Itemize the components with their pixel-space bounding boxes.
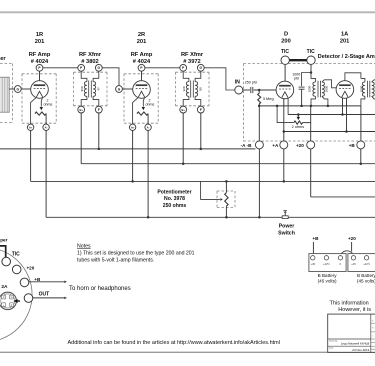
- svg-text:D: D: [284, 32, 288, 38]
- label D 200 tube designation: [281, 32, 291, 45]
- wire grid return down to -A -B terminal: [258, 106, 260, 141]
- label RF Amp # 4024 (2R): [131, 52, 153, 65]
- resistor R1 3 Meg grid leak: [258, 90, 261, 106]
- svg-text:# 3802: # 3802: [81, 59, 98, 65]
- wire plate 1A to T4 primary: [345, 73, 361, 81]
- wire F T2 down to F bus: [200, 113, 202, 149]
- svg-text:3 Meg: 3 Meg: [263, 96, 274, 101]
- wire capacitor to grid node: [254, 89, 277, 91]
- wire +20 feed vertical: [310, 106, 312, 141]
- dashed box RF Xfmr T2: [175, 72, 209, 106]
- label jumper (cut off): [0, 238, 7, 243]
- wire filament to A+ (1R): [31, 97, 37, 124]
- terminal F (T2): [197, 106, 204, 113]
- label +20 battery lead: [348, 236, 356, 241]
- label 2A socket: [1, 284, 8, 290]
- terminal B+ (T2): [180, 106, 187, 113]
- wire 2-ohm rheostat left end to L1: [277, 106, 294, 123]
- label 3 Meg: [263, 96, 274, 101]
- label RF Xfmr # 3972: [181, 52, 204, 65]
- title block date: [329, 347, 369, 352]
- svg-text:2R: 2R: [138, 32, 145, 38]
- winding value label 80 (T2): [199, 87, 203, 91]
- label B Battery (45 volts) left: [318, 273, 338, 284]
- terminal P (T2): [180, 64, 187, 71]
- winding value label 960 (T1): [80, 86, 84, 91]
- svg-text:250 ohms: 250 ohms: [163, 203, 187, 209]
- wire P to plate (2R): [141, 71, 143, 81]
- wire 1A left filament leg: [342, 98, 344, 115]
- svg-text:+B: +B: [312, 236, 319, 241]
- svg-text:320: 320: [182, 86, 186, 91]
- svg-text:+22½: +22½: [323, 262, 330, 266]
- plate-return bus L1: [259, 105, 361, 107]
- terminal G (T1): [95, 64, 102, 71]
- svg-text:(45 volts): (45 volts): [357, 279, 375, 284]
- AF transformer T4 secondary winding (cut off): [372, 80, 375, 99]
- wire +B hole to horn: [29, 281, 67, 284]
- terminal B+ (T1): [78, 106, 85, 113]
- jumper bar between TIC terminals: [290, 59, 307, 61]
- rheostat R2 2 ohms (detector): [294, 121, 311, 124]
- wire +B terminal down to B+ bus: [360, 149, 362, 164]
- AF transformer T3 core: [318, 81, 320, 98]
- terminal A+ (2R): [129, 124, 135, 130]
- svg-text:However, it is: However, it is: [338, 307, 371, 313]
- svg-text:RF Xfmr: RF Xfmr: [181, 52, 204, 58]
- wire plate 1R to P T1: [43, 67, 78, 69]
- wire F T1 down to F bus: [98, 113, 100, 149]
- label 2 ohms (1R): [44, 98, 53, 106]
- wire G T1 to grid 2R: [102, 68, 119, 86]
- terminal TIC 1: [281, 56, 289, 64]
- junction +A node on L4: [283, 130, 286, 133]
- label 1000 pfd: [292, 73, 300, 81]
- label TIC left: [281, 49, 289, 55]
- junction +B on B+ bus: [360, 162, 363, 165]
- wire G T2 to IN terminal: [204, 68, 235, 90]
- triode tube D (detector, type 200): [276, 81, 294, 99]
- wire coupler to terminal G: [9, 88, 14, 90]
- wire +B terminal up to T4: [360, 106, 362, 141]
- tube socket 2A: [0, 292, 16, 309]
- svg-text:+22½: +22½: [363, 262, 370, 266]
- label 2 ohms (2R): [146, 98, 155, 106]
- svg-text:A+: A+: [131, 126, 135, 130]
- svg-text:ohms: ohms: [44, 102, 53, 106]
- svg-text:per: per: [0, 238, 7, 243]
- label Potentiometer No. 3978 250 ohms: [157, 189, 191, 209]
- label To horn or headphones: [69, 286, 131, 292]
- wire tube D right filament leg to filament bus: [287, 98, 289, 115]
- svg-text:1000: 1000: [308, 85, 312, 92]
- terminal G (grid input stage 1R): [14, 86, 21, 93]
- svg-text:Power: Power: [279, 223, 295, 229]
- junction A+ 2R on A+ bus: [131, 180, 134, 183]
- B+ bus: [81, 163, 375, 165]
- battery B1 terminal +22&#189;: [323, 256, 330, 266]
- wire P to plate (1R): [39, 71, 41, 81]
- svg-text:F: F: [200, 108, 202, 112]
- winding value label 47 (T1): [97, 87, 101, 91]
- jumper battery 1 to battery 2: [341, 251, 354, 255]
- jumper wire to TIC hole: [0, 246, 6, 257]
- junction +A on A+ bus: [283, 180, 286, 183]
- note however text: [338, 307, 371, 313]
- svg-text:TIC: TIC: [307, 49, 315, 55]
- label 1R tube designation: [35, 32, 45, 45]
- rheostat 2 ohms (2R): [137, 97, 148, 124]
- svg-text:RF Amp: RF Amp: [29, 52, 51, 58]
- winding value label 320 (T2): [182, 86, 186, 91]
- AF transformer T4 core: [367, 81, 369, 98]
- note this information text: [330, 301, 369, 307]
- title block row dividers: [328, 323, 375, 349]
- wire plate 2R to P T2: [145, 67, 180, 69]
- svg-text:+B: +B: [349, 143, 356, 148]
- svg-text:+A: +A: [272, 143, 279, 148]
- A+ bus: [31, 180, 375, 182]
- node grid leak bottom junction: [258, 105, 261, 108]
- terminal A+ (1R): [27, 124, 33, 130]
- terminal +20: [307, 141, 315, 149]
- svg-text:+20: +20: [27, 266, 35, 271]
- svg-text:23 Nov 2013: 23 Nov 2013: [352, 348, 369, 352]
- svg-text:201: 201: [137, 39, 147, 45]
- panel hole +20: [12, 265, 21, 274]
- dashed box potentiometer: [217, 191, 235, 208]
- wire terminal G to tube 2R grid: [122, 88, 132, 90]
- antenna coupler coil L0: [0, 77, 9, 112]
- svg-text:ohms: ohms: [146, 102, 155, 106]
- label TIC right: [307, 49, 315, 55]
- svg-text:960: 960: [80, 86, 84, 91]
- wire TIC 2 down to transformer primary: [310, 64, 312, 72]
- svg-text:201: 201: [340, 39, 350, 45]
- terminal P (T1): [78, 64, 85, 71]
- wire pot top to A+ bus: [225, 181, 227, 192]
- dashed box RF Xfmr T1: [73, 72, 107, 106]
- svg-text:No. 3978: No. 3978: [164, 196, 185, 202]
- label 2R tube designation: [137, 32, 147, 45]
- title block drawn by: [329, 340, 369, 346]
- terminal +A: [280, 141, 288, 149]
- A- bus (through power switch): [46, 216, 375, 218]
- wire terminal G to tube 1R grid: [21, 88, 31, 90]
- wire A- 2R down to A- bus: [147, 131, 149, 218]
- junction F T1 on F bus: [98, 148, 101, 151]
- svg-text:47: 47: [97, 87, 101, 91]
- svg-text:(45 volts): (45 volts): [318, 279, 337, 284]
- node TIC branch junction: [310, 71, 313, 74]
- label +B battery lead: [312, 236, 319, 241]
- wire plate D up to TIC terminal: [284, 64, 286, 81]
- svg-text:Potentiometer: Potentiometer: [157, 189, 191, 195]
- svg-text:F: F: [98, 108, 100, 112]
- svg-text:-A -B: -A -B: [241, 143, 252, 148]
- triode tube 1R (type 201): [31, 81, 49, 99]
- node grid junction: [258, 89, 261, 92]
- junction A- 2R on A- bus: [147, 216, 150, 219]
- triode tube 2R (type 201): [133, 81, 151, 99]
- svg-text:2 ohms: 2 ohms: [292, 125, 305, 129]
- svg-text:er: er: [0, 56, 6, 62]
- svg-text:A-: A-: [147, 126, 150, 130]
- title block right column marks: [372, 321, 374, 338]
- junction 1A left leg on filament bus: [341, 113, 344, 116]
- battery B1 case: [309, 254, 346, 272]
- wire tube D left filament leg to +A node: [283, 98, 285, 140]
- panel hole TIC: [2, 257, 11, 266]
- svg-text:B Battery: B Battery: [357, 273, 375, 278]
- svg-text:# 3972: # 3972: [183, 59, 200, 65]
- terminal G (grid stage 2R): [116, 86, 123, 93]
- junction 1A right leg on L4: [345, 130, 348, 133]
- panel hole OUT: [24, 294, 33, 303]
- label +20 (panel): [27, 266, 35, 271]
- svg-text:Switch: Switch: [278, 230, 295, 236]
- AF transformer T4 primary winding (cut off): [361, 78, 365, 106]
- svg-text:1A: 1A: [341, 32, 348, 38]
- svg-text:tubes with 5-volt 1-amp filame: tubes with 5-volt 1-amp filaments.: [77, 257, 154, 263]
- label TIC (panel): [12, 252, 20, 258]
- wire filament to A+ (2R): [133, 97, 139, 124]
- junction B+ T2 on B+ bus: [182, 162, 185, 165]
- capacitor C2 1000 pfd: [299, 87, 305, 89]
- junction T3 secondary on plate-return bus: [327, 105, 330, 108]
- rheostat 2 ohms (1R): [35, 97, 46, 124]
- transformer T1 primary winding: [81, 71, 87, 106]
- wire B+ T1 down to B+ bus: [80, 113, 82, 164]
- svg-text:B Battery: B Battery: [318, 273, 338, 278]
- svg-text:B+: B+: [79, 108, 83, 112]
- wire +B lead to battery 1: [312, 242, 314, 255]
- terminal A- (2R): [145, 124, 151, 130]
- notes line 1: [77, 251, 195, 257]
- label 250 pfd: [245, 80, 257, 84]
- svg-text:C: C: [3, 296, 5, 299]
- antenna coupler dashed box (cut off): [0, 64, 12, 123]
- svg-text:250 pfd: 250 pfd: [245, 80, 257, 84]
- svg-text:S: S: [372, 321, 373, 323]
- wire branch to bypass capacitor: [302, 73, 311, 87]
- wire +20 lead to battery 2: [351, 242, 353, 251]
- svg-text:pfd: pfd: [294, 77, 299, 81]
- svg-text:To horn or headphones: To horn or headphones: [69, 286, 131, 292]
- wire OUT hole to horn: [33, 297, 67, 300]
- battery B1 terminal 0: [338, 256, 342, 266]
- wire B+ T2 down to B+ bus: [182, 113, 184, 164]
- svg-text:G: G: [11, 296, 13, 299]
- dashed box RF Amp stage 2R: [124, 74, 158, 123]
- wire 1A right filament leg: [346, 98, 348, 131]
- svg-text:+20: +20: [296, 143, 304, 148]
- junction T3 primary on plate-return bus: [310, 105, 313, 108]
- sheet border bottom rule: [0, 351, 375, 353]
- label +B: [349, 143, 356, 148]
- label -A -B: [241, 143, 252, 148]
- F/-B bus (ground bus): [0, 148, 255, 150]
- wire A- 1R down to A- bus: [45, 131, 47, 218]
- socket key arrow: [13, 299, 20, 303]
- svg-text:Drawn by: Drawn by: [329, 340, 337, 343]
- junction F T2 on F bus: [200, 148, 203, 151]
- junction pot top on A+ bus: [225, 180, 228, 183]
- label 1A 201 tube designation: [340, 32, 350, 45]
- sheet border top rule: [0, 11, 375, 13]
- battery B2 terminal +22&#189;: [363, 256, 370, 266]
- +20 bus: [311, 196, 375, 198]
- antenna coupler label (cut off): [0, 56, 6, 62]
- svg-text:3000: 3000: [325, 85, 329, 92]
- terminal P (1R): [36, 64, 43, 71]
- svg-text:80: 80: [199, 87, 203, 91]
- terminal A- (1R): [43, 124, 49, 130]
- dashed box RF Amp stage 1R: [22, 74, 56, 123]
- transformer T1 secondary winding: [93, 71, 99, 106]
- terminal +B: [357, 141, 365, 149]
- svg-text:1: 1: [372, 336, 373, 338]
- svg-text:This information: This information: [330, 301, 369, 307]
- label +A: [272, 143, 279, 148]
- potentiometer R3 element: [225, 193, 228, 207]
- wire +A terminal down to A+ bus: [283, 149, 285, 182]
- label Detector / 2-Stage Amp: [318, 54, 375, 60]
- label RF Xfmr # 3802: [79, 52, 102, 65]
- svg-text:B+: B+: [181, 108, 185, 112]
- transformer T2 secondary winding: [195, 71, 201, 106]
- label RF Amp # 4024 (1R): [29, 52, 51, 65]
- notes line 2: [77, 257, 154, 263]
- power switch S1: [282, 211, 288, 219]
- terminal G (T2): [197, 64, 204, 71]
- terminal P (2R): [138, 64, 145, 71]
- svg-text:Additional info can be found i: Additional info can be found in the arti…: [68, 340, 280, 346]
- wire pot bottom to A- bus: [225, 206, 227, 217]
- battery B2 terminal +45: [351, 256, 356, 266]
- svg-text:+20: +20: [348, 236, 356, 241]
- svg-text:RF Amp: RF Amp: [131, 52, 153, 58]
- filament bus L2: [288, 114, 375, 116]
- winding value label 3000 (T3): [325, 85, 329, 92]
- junction C2 on plate-return bus: [300, 105, 303, 108]
- label IN terminal: [235, 80, 240, 86]
- junction -A -B on A- bus: [258, 216, 261, 219]
- svg-text:A+: A+: [29, 126, 33, 130]
- terminal F (T1): [95, 106, 102, 113]
- label 2 ohms (detector): [292, 125, 305, 129]
- svg-text:1) This set is designed to use: 1) This set is designed to use the type …: [77, 251, 195, 257]
- svg-text:+45: +45: [351, 262, 356, 266]
- rheostat R2 wiper arrow: [297, 115, 300, 121]
- svg-text:TIC: TIC: [281, 49, 289, 55]
- svg-text:1000: 1000: [360, 85, 364, 92]
- notes heading: [77, 243, 91, 249]
- battery B1 terminal +45: [311, 256, 316, 266]
- svg-text:201: 201: [35, 39, 45, 45]
- triode tube 1A (1st audio, type 201): [336, 81, 354, 99]
- svg-text:IN: IN: [235, 80, 240, 86]
- dashed box detector unit: [243, 64, 375, 141]
- svg-text:RF Xfmr: RF Xfmr: [79, 52, 102, 58]
- label OUT (panel): [39, 291, 50, 297]
- svg-text:Detector / 2-Stage Amp: Detector / 2-Stage Amp: [318, 54, 375, 60]
- label +B (panel): [34, 277, 41, 282]
- transformer T2 core: [191, 81, 194, 98]
- svg-text:Lego Maxwell KK4LB: Lego Maxwell KK4LB: [341, 342, 370, 346]
- terminal panel circle (cut off): [0, 248, 32, 342]
- footer info text: [68, 340, 280, 346]
- wire capacitor C2 to plate-return bus: [301, 89, 303, 106]
- svg-text:Notes: Notes: [77, 243, 91, 249]
- svg-text:A-: A-: [45, 126, 48, 130]
- terminal -A -B: [255, 141, 263, 149]
- junction rheostat branch on L1: [276, 105, 279, 108]
- label +20: [296, 143, 304, 148]
- svg-text:1R: 1R: [36, 32, 43, 38]
- transformer T2 primary winding: [183, 71, 189, 106]
- wire A+ 2R down to A+ bus: [132, 131, 134, 182]
- junction wiper on filament bus: [297, 113, 300, 116]
- svg-text:TIC: TIC: [12, 252, 20, 258]
- winding value label 1000 (T4): [360, 85, 364, 92]
- label B Battery (45 volts) right (cut off): [357, 273, 375, 284]
- transformer T1 core: [89, 81, 92, 98]
- svg-text:200: 200: [281, 39, 291, 45]
- terminal IN: [235, 86, 243, 94]
- filament return bus L4: [284, 131, 375, 133]
- winding value label 1000 (T3): [308, 85, 312, 92]
- label Power Switch: [278, 223, 295, 236]
- svg-text:OUT: OUT: [39, 291, 50, 297]
- svg-text:Date: Date: [329, 347, 333, 350]
- wire +20 terminal down to +20 bus corner: [310, 149, 312, 197]
- wire A+ 1R down to A+ bus: [30, 131, 32, 182]
- wire -A -B terminal down to A- bus: [258, 149, 260, 217]
- panel hole +B: [20, 278, 29, 287]
- junction pot bottom on A- bus: [225, 216, 228, 219]
- terminal TIC 2: [307, 56, 315, 64]
- wire IN to coupling capacitor: [243, 89, 250, 91]
- title block frame: [328, 314, 375, 352]
- capacitor C1 250 pfd: [251, 87, 253, 93]
- svg-text:2A: 2A: [1, 284, 8, 290]
- AF transformer T3 primary winding: [311, 73, 315, 106]
- AF transformer T3 secondary winding: [322, 80, 336, 106]
- potentiometer wiper wire: [201, 181, 223, 200]
- battery B2 case (cut off): [348, 254, 375, 272]
- svg-text:+45: +45: [311, 262, 316, 266]
